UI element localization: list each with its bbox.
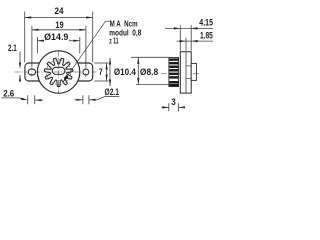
- svg-text:7: 7: [99, 67, 103, 77]
- svg-text:Ø2.1: Ø2.1: [105, 87, 120, 97]
- svg-text:2.6: 2.6: [3, 88, 14, 98]
- svg-text:Ø14.9: Ø14.9: [44, 32, 68, 42]
- svg-text:19: 19: [55, 20, 63, 30]
- svg-text:3: 3: [171, 97, 176, 107]
- svg-text:Ø10.4: Ø10.4: [114, 67, 136, 77]
- svg-text:24: 24: [55, 6, 64, 16]
- svg-text:Ø8.8: Ø8.8: [140, 67, 158, 77]
- svg-text:2.1: 2.1: [8, 43, 17, 53]
- svg-text:z 11: z 11: [109, 36, 118, 46]
- svg-text:4.15: 4.15: [199, 18, 213, 28]
- svg-text:1.85: 1.85: [200, 30, 213, 40]
